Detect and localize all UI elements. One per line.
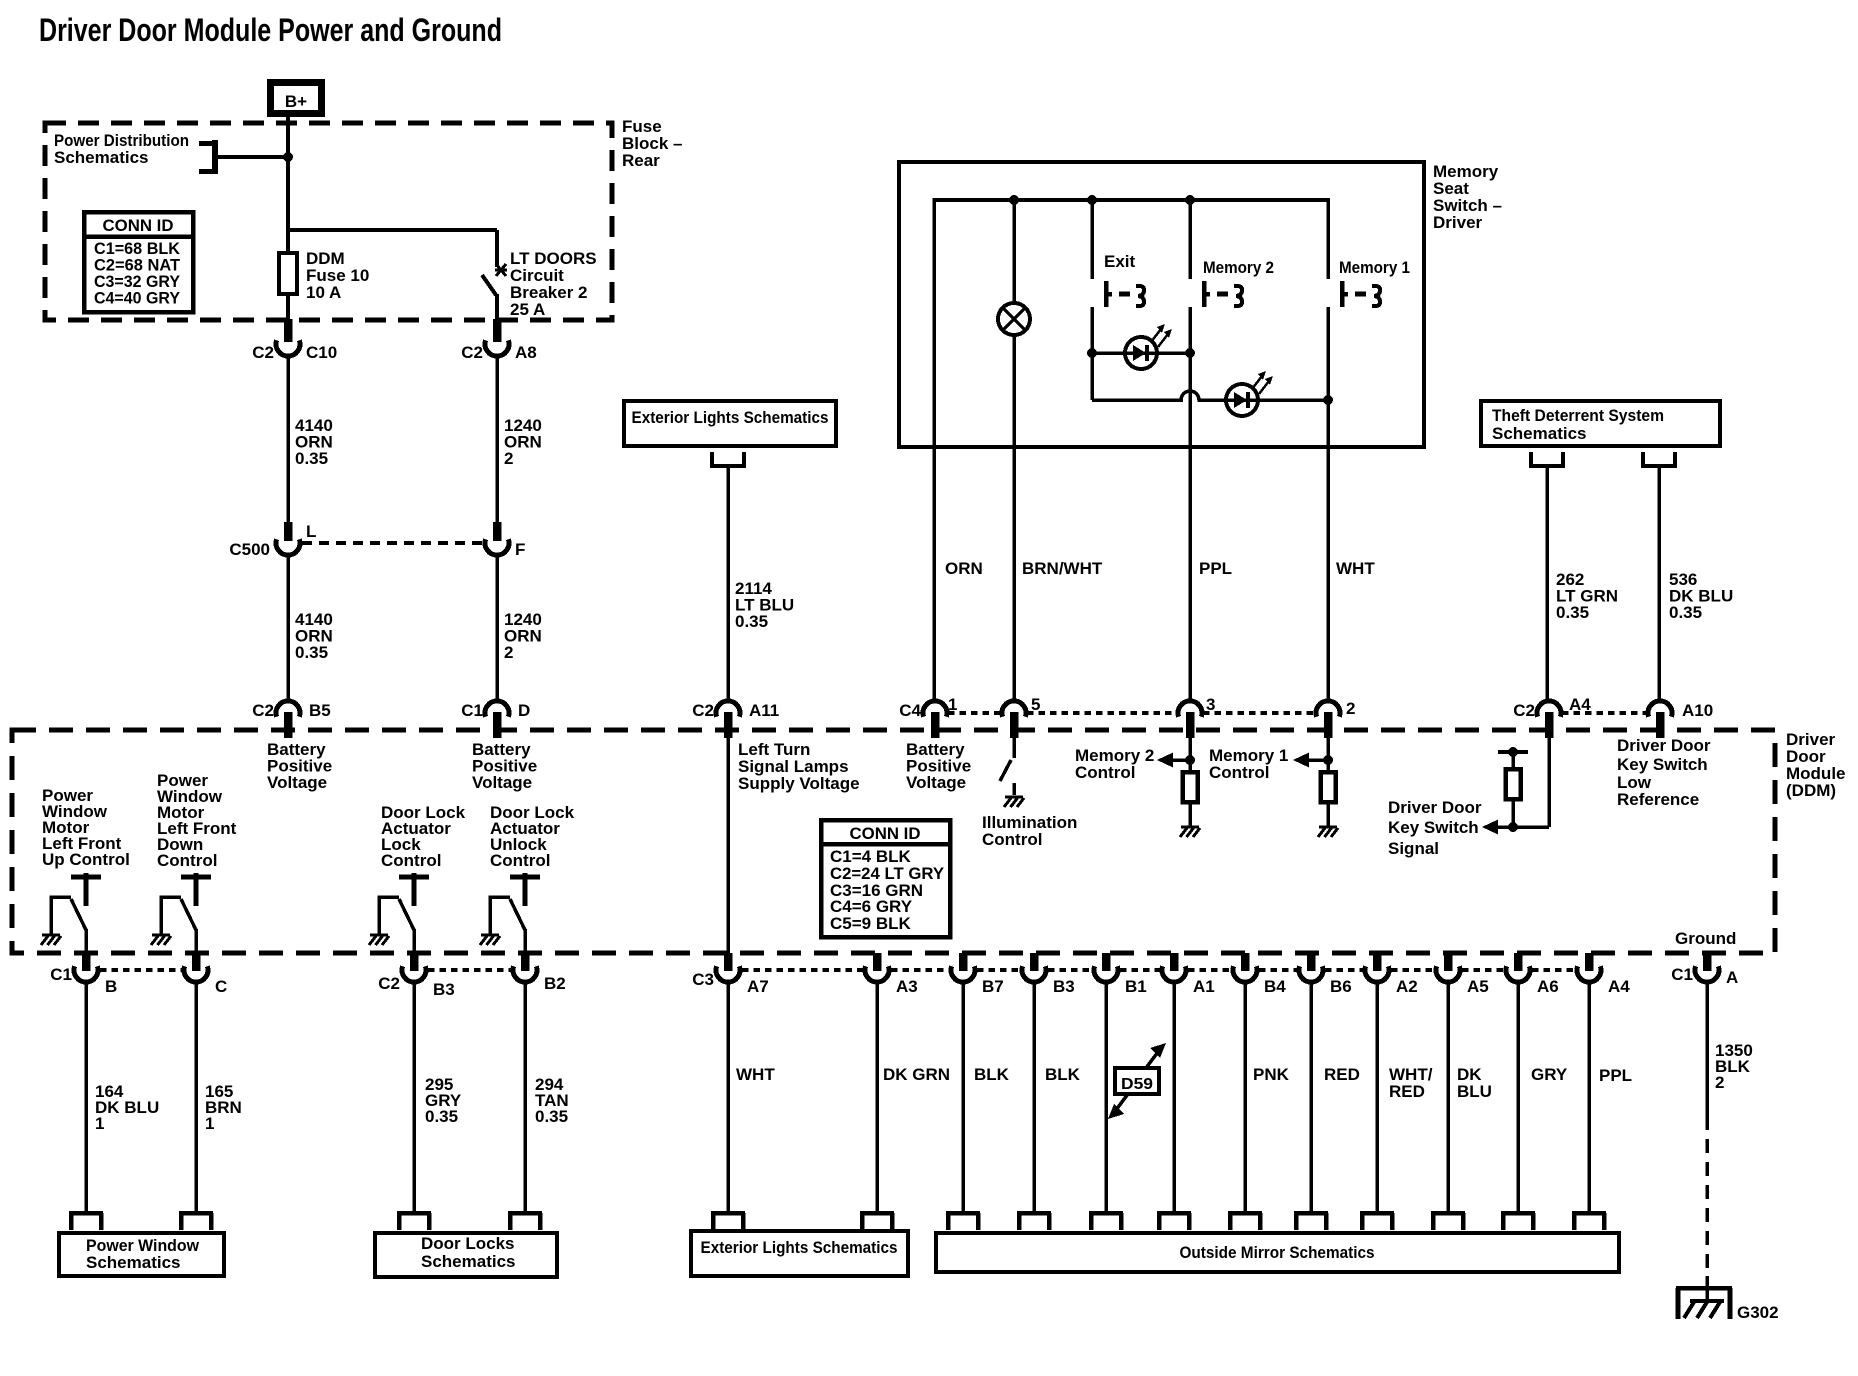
connector pin A5 [1436,953,1489,996]
circuit breaker 2 LT DOORS 25A [482,264,507,321]
connector pin B7 [951,953,1004,996]
label fuse block rear [622,117,682,170]
svg-text:C10: C10 [306,343,337,362]
svg-text:Rear: Rear [622,151,660,170]
label DK BLU [1457,1065,1492,1101]
svg-text:2: 2 [504,643,513,662]
tab B [69,1213,103,1230]
connector pin A6 [1506,953,1559,996]
splice D59 [1108,1043,1166,1119]
svg-text:C2: C2 [252,343,274,362]
wire exit down to led2 row [1090,353,1094,400]
svg-text:0.35: 0.35 [295,449,328,468]
svg-text:Exterior Lights Schematics: Exterior Lights Schematics [701,1238,898,1257]
svg-text:DK GRN: DK GRN [883,1065,950,1084]
svg-text:0.35: 0.35 [535,1107,568,1126]
svg-text:Voltage: Voltage [472,773,532,792]
box door locks schematics [375,1233,557,1277]
connector C4 pin 3 [1178,695,1215,738]
illumination control switch [1000,738,1024,807]
tab B6 [1294,1213,1328,1230]
wire B+ down [286,113,290,253]
label LT DOORS Circuit Breaker 2 25A [510,249,597,319]
tab B1 [1089,1213,1123,1230]
svg-text:0.35: 0.35 [735,612,768,631]
connector pin B6 [1299,953,1352,996]
label memory 1 control [1209,746,1288,782]
svg-text:Control: Control [982,830,1042,849]
memory 1 control output [1293,738,1338,837]
svg-text:B3: B3 [1053,977,1075,996]
conn id table fuse block [84,212,193,312]
svg-text:Driver: Driver [1433,213,1483,232]
label driver door key switch low reference [1617,736,1711,809]
svg-text:Driver Door Module Power and G: Driver Door Module Power and Ground [39,12,502,48]
svg-text:Up Control: Up Control [42,850,130,869]
svg-text:Exit: Exit [1104,252,1136,271]
label battery positive voltage D [472,740,537,792]
svg-text:C500: C500 [229,540,270,559]
driver door module dashed box [12,730,1775,953]
svg-text:Control: Control [381,851,441,870]
switch window up [41,873,101,953]
label illumination control [982,813,1077,849]
wire B1 [1104,982,1108,1212]
svg-text:C4=40 GRY: C4=40 GRY [94,289,181,308]
connector C500 pin F [485,522,525,559]
label power window motor left front up control [42,786,130,869]
connector C3 pin A7 [692,953,768,996]
tab under theft box right [1643,452,1675,466]
wire RED [1309,982,1313,1212]
svg-text:C3: C3 [692,970,714,989]
wire bus to pin1 [932,198,936,700]
label 164 DK BLU 1 [95,1082,159,1133]
bus wire memory switch [934,198,1328,202]
svg-text:C2: C2 [461,343,483,362]
svg-text:A6: A6 [1537,977,1559,996]
label 294 TAN 0.35 [535,1075,569,1126]
tab under theft box left [1531,452,1563,466]
svg-text:0.35: 0.35 [425,1107,458,1126]
tab A6 [1501,1213,1535,1230]
svg-text:10 A: 10 A [306,283,341,302]
svg-text:Schematics: Schematics [86,1253,181,1272]
svg-text:RED: RED [1324,1065,1360,1084]
connector C2 pin B2 [513,953,566,993]
label power distribution schematics [54,131,189,167]
ground G302 [1676,1276,1732,1319]
connector pin B4 [1233,953,1286,996]
bracket to power distribution [199,140,286,174]
svg-text:Voltage: Voltage [906,773,966,792]
svg-text:C1: C1 [1671,965,1693,984]
svg-text:Control: Control [1075,763,1135,782]
tab B3m [1017,1213,1051,1230]
node bus/exit [1087,195,1097,205]
svg-text:B7: B7 [982,977,1004,996]
connector C2 pin A8 [461,319,536,362]
svg-text:Reference: Reference [1617,790,1699,809]
wire BLK B3 [1032,982,1036,1212]
svg-text:C4: C4 [899,701,921,720]
svg-text:C2: C2 [1513,701,1535,720]
tab under exterior lights box [712,452,744,466]
svg-text:D: D [518,701,530,720]
svg-text:WHT: WHT [1336,559,1375,578]
tab B4 [1228,1213,1262,1230]
LED D2 [1226,371,1273,416]
connector C1 pin D [461,701,530,738]
dashed link A4 A10 [1562,711,1647,715]
wire LED1 row [1092,351,1190,355]
wire 295 GRY [412,982,416,1212]
svg-text:Ground: Ground [1675,929,1736,948]
wire 1350 BLK 2 to ground [1705,982,1709,1276]
svg-text:Theft Deterrent System: Theft Deterrent System [1492,406,1664,425]
svg-text:BLK: BLK [974,1065,1010,1084]
svg-text:Memory 1: Memory 1 [1339,258,1410,277]
svg-text:B5: B5 [309,701,331,720]
svg-text:BLU: BLU [1457,1082,1492,1101]
svg-text:Voltage: Voltage [267,773,327,792]
connector C500 pin L [229,522,316,559]
connector C1 pin A ground [1671,953,1738,987]
dashed link C500 [302,541,483,545]
label 2114 LT BLU 0.35 [735,579,794,631]
label 1240 ORN 2 upper [504,416,542,468]
label 262 LT GRN 0.35 [1556,570,1618,622]
battery feed B+ [271,83,322,114]
svg-text:Key Switch: Key Switch [1617,755,1708,774]
svg-text:0.35: 0.35 [1556,603,1589,622]
connector C4 pin 5 [1002,695,1040,738]
dashed link C1 B-C [100,968,182,972]
svg-text:Driver Door: Driver Door [1617,736,1711,755]
memory 2 control output [1157,738,1200,837]
svg-text:Memory 2: Memory 2 [1203,258,1274,277]
connector pin A3 [865,953,918,996]
svg-text:0.35: 0.35 [1669,603,1702,622]
svg-text:Control: Control [157,851,217,870]
svg-text:CONN ID: CONN ID [103,216,174,235]
svg-text:Control: Control [490,851,550,870]
svg-text:CONN ID: CONN ID [850,824,921,843]
switch door unlock [480,873,540,953]
wire LED2 row with hop [1092,391,1328,400]
dashed link bottom row pins [742,968,1575,972]
wire 1240 ORN upper [495,356,499,522]
lamp illumination [998,200,1030,335]
svg-text:A5: A5 [1467,977,1489,996]
wire BLK B7 [961,982,965,1212]
tab A3 [860,1213,894,1230]
svg-text:A3: A3 [896,977,918,996]
tab A5 [1431,1213,1465,1230]
box theft deterrent system schematics [1481,401,1720,446]
svg-text:Door Locks: Door Locks [421,1234,515,1253]
svg-text:B3: B3 [433,980,455,999]
svg-text:Signal: Signal [1388,839,1439,858]
svg-text:L: L [306,522,316,541]
svg-text:Control: Control [1209,763,1269,782]
fuse DDM Fuse 10 10A [279,253,297,321]
node bus/memory2 [1185,195,1195,205]
svg-text:G302: G302 [1737,1303,1779,1322]
svg-text:Schematics: Schematics [421,1252,516,1271]
svg-text:BRN/WHT: BRN/WHT [1022,559,1103,578]
tab B2 [508,1213,542,1230]
label memory 2 control [1075,746,1154,782]
svg-text:C5=9 BLK: C5=9 BLK [830,914,911,933]
switch window down [151,873,211,953]
wire A1 [1172,982,1176,1212]
svg-text:DK BLU: DK BLU [95,1098,159,1117]
label left turn signal lamps supply voltage [738,740,860,793]
svg-text:Schematics: Schematics [1492,424,1587,443]
svg-text:A2: A2 [1396,977,1418,996]
tab A4m [1572,1213,1606,1230]
svg-text:Supply Voltage: Supply Voltage [738,774,860,793]
wire 165 BRN [194,982,198,1212]
label WHT/RED [1389,1065,1433,1101]
switch Memory 1 [1328,198,1380,700]
svg-text:F: F [515,540,525,559]
svg-text:B1: B1 [1125,977,1147,996]
label battery positive voltage B5 [267,740,332,792]
switch Memory 2 [1190,200,1242,700]
svg-text:(DDM): (DDM) [1786,781,1836,800]
svg-text:A4: A4 [1608,977,1630,996]
svg-text:2: 2 [504,449,513,468]
svg-text:B4: B4 [1264,977,1286,996]
box exterior lights schematics bottom [691,1231,908,1276]
connector C2 pin B3 [378,953,454,999]
label 1240 ORN 2 lower [504,610,542,662]
connector pin A1 [1162,953,1215,996]
svg-text:WHT: WHT [736,1065,775,1084]
svg-text:1: 1 [95,1114,104,1133]
connector pin A2 [1365,953,1418,996]
label memory seat switch driver [1433,162,1502,232]
label 4140 ORN 0.35 lower [295,610,333,662]
wire 262 LT GRN [1545,466,1549,700]
svg-text:Driver Door: Driver Door [1388,798,1482,817]
svg-text:0.35: 0.35 [295,643,328,662]
svg-text:C2: C2 [252,701,274,720]
label 1350 BLK 2 [1715,1041,1753,1092]
label 165 BRN 1 [205,1082,242,1133]
wire DK GRN [875,982,879,1212]
svg-text:A7: A7 [747,977,769,996]
svg-text:D59: D59 [1121,1076,1153,1093]
svg-text:C2: C2 [692,701,714,720]
conn id table DDM [821,820,950,937]
connector C2 pin A11 [692,701,779,738]
box outside mirror schematics [936,1233,1619,1272]
wire 1240 ORN lower [495,555,499,701]
connector C2 pin A4 key switch [1513,695,1591,738]
label DDM Fuse 10 10A [306,249,369,302]
svg-text:A8: A8 [515,343,537,362]
svg-text:PPL: PPL [1199,559,1232,578]
label battery positive voltage C4-1 [906,740,971,792]
tab B3 [397,1213,431,1230]
svg-text:Exterior Lights Schematics: Exterior Lights Schematics [632,408,829,427]
label door lock actuator lock control [381,803,466,870]
svg-text:Schematics: Schematics [54,148,149,167]
fuse block rear dashed box [45,123,612,320]
svg-text:B2: B2 [544,974,566,993]
svg-text:Key Switch: Key Switch [1388,818,1479,837]
connector pin A4 mirror [1577,953,1630,996]
svg-text:RED: RED [1389,1082,1425,1101]
node memory1/led2 [1323,395,1333,405]
connector pin B3 mirror [1022,953,1075,996]
wire PPL [1587,982,1591,1212]
svg-text:A1: A1 [1193,977,1215,996]
wire DK BLU [1446,982,1450,1212]
dashed link C4 pins [948,711,1315,715]
label power window motor left front down control [157,771,237,870]
label 536 DK BLU 0.35 [1669,570,1733,622]
wire 164 DK BLU [84,982,88,1212]
connector C4 pin 2 [1316,699,1355,738]
svg-text:B6: B6 [1330,977,1352,996]
switch Exit [1092,200,1144,353]
wire A11 to A7 [726,738,730,953]
wire 4140 ORN upper [286,356,290,522]
tab A1 [1157,1213,1191,1230]
connector C2 pin C10 [252,319,337,362]
svg-text:C1: C1 [461,701,483,720]
svg-text:BLK: BLK [1045,1065,1081,1084]
svg-text:B+: B+ [285,92,307,111]
wire 2114 LT BLU [726,466,730,700]
connector C1 pin C [184,953,227,996]
wire GRY [1516,982,1520,1212]
wire branch to breaker [288,230,497,267]
connector pin B1 [1094,953,1147,996]
tab C [179,1213,213,1230]
svg-text:Outside Mirror Schematics: Outside Mirror Schematics [1180,1243,1375,1262]
LED D1 [1125,324,1172,369]
connector C4 pin 1 [899,695,957,738]
tab B7 [946,1213,980,1230]
wire 4140 ORN lower [286,555,290,701]
label 4140 ORN 0.35 upper [295,416,333,468]
dashed link C2 B3-B2 [428,968,511,972]
label 295 GRY 0.35 [425,1075,462,1126]
wire PNK [1243,982,1247,1212]
svg-text:B: B [105,977,117,996]
svg-text:1: 1 [205,1114,214,1133]
node memory2/led1 [1185,348,1195,358]
svg-text:25 A: 25 A [510,300,545,319]
wire 294 TAN [523,982,527,1212]
label driver door module DDM [1786,730,1846,800]
memory seat switch driver box [899,162,1424,447]
svg-text:PNK: PNK [1253,1065,1290,1084]
node bus/lamp [1009,195,1019,205]
switch door lock [369,873,429,953]
driver door key switch circuit [1482,738,1549,835]
label door lock actuator unlock control [490,803,575,870]
tab A2 [1360,1213,1394,1230]
svg-text:2: 2 [1715,1073,1724,1092]
svg-text:C2: C2 [378,974,400,993]
svg-text:2: 2 [1346,699,1355,718]
svg-text:ORN: ORN [945,559,983,578]
label driver door key switch signal [1388,798,1482,858]
svg-text:PPL: PPL [1599,1066,1632,1085]
connector C1 pin B [50,953,117,996]
connector C2 pin B5 [252,701,330,738]
node junction B+/branch [283,152,293,162]
svg-text:A: A [1726,968,1738,987]
node exit/led1 [1087,348,1097,358]
svg-text:A11: A11 [749,701,779,720]
box power window schematics [59,1233,224,1276]
wire lamp to pin5 [1012,335,1016,700]
box exterior lights schematics top [624,401,836,446]
svg-text:C1: C1 [50,965,72,984]
svg-text:GRY: GRY [1531,1065,1568,1084]
connector C2 pin A10 [1648,701,1713,738]
wire 536 DK BLU [1657,466,1661,700]
wire WHT [726,982,730,1212]
svg-text:C: C [215,977,227,996]
svg-text:A10: A10 [1682,701,1713,720]
wire WHT/RED [1375,982,1379,1212]
tab A7 [711,1213,745,1230]
